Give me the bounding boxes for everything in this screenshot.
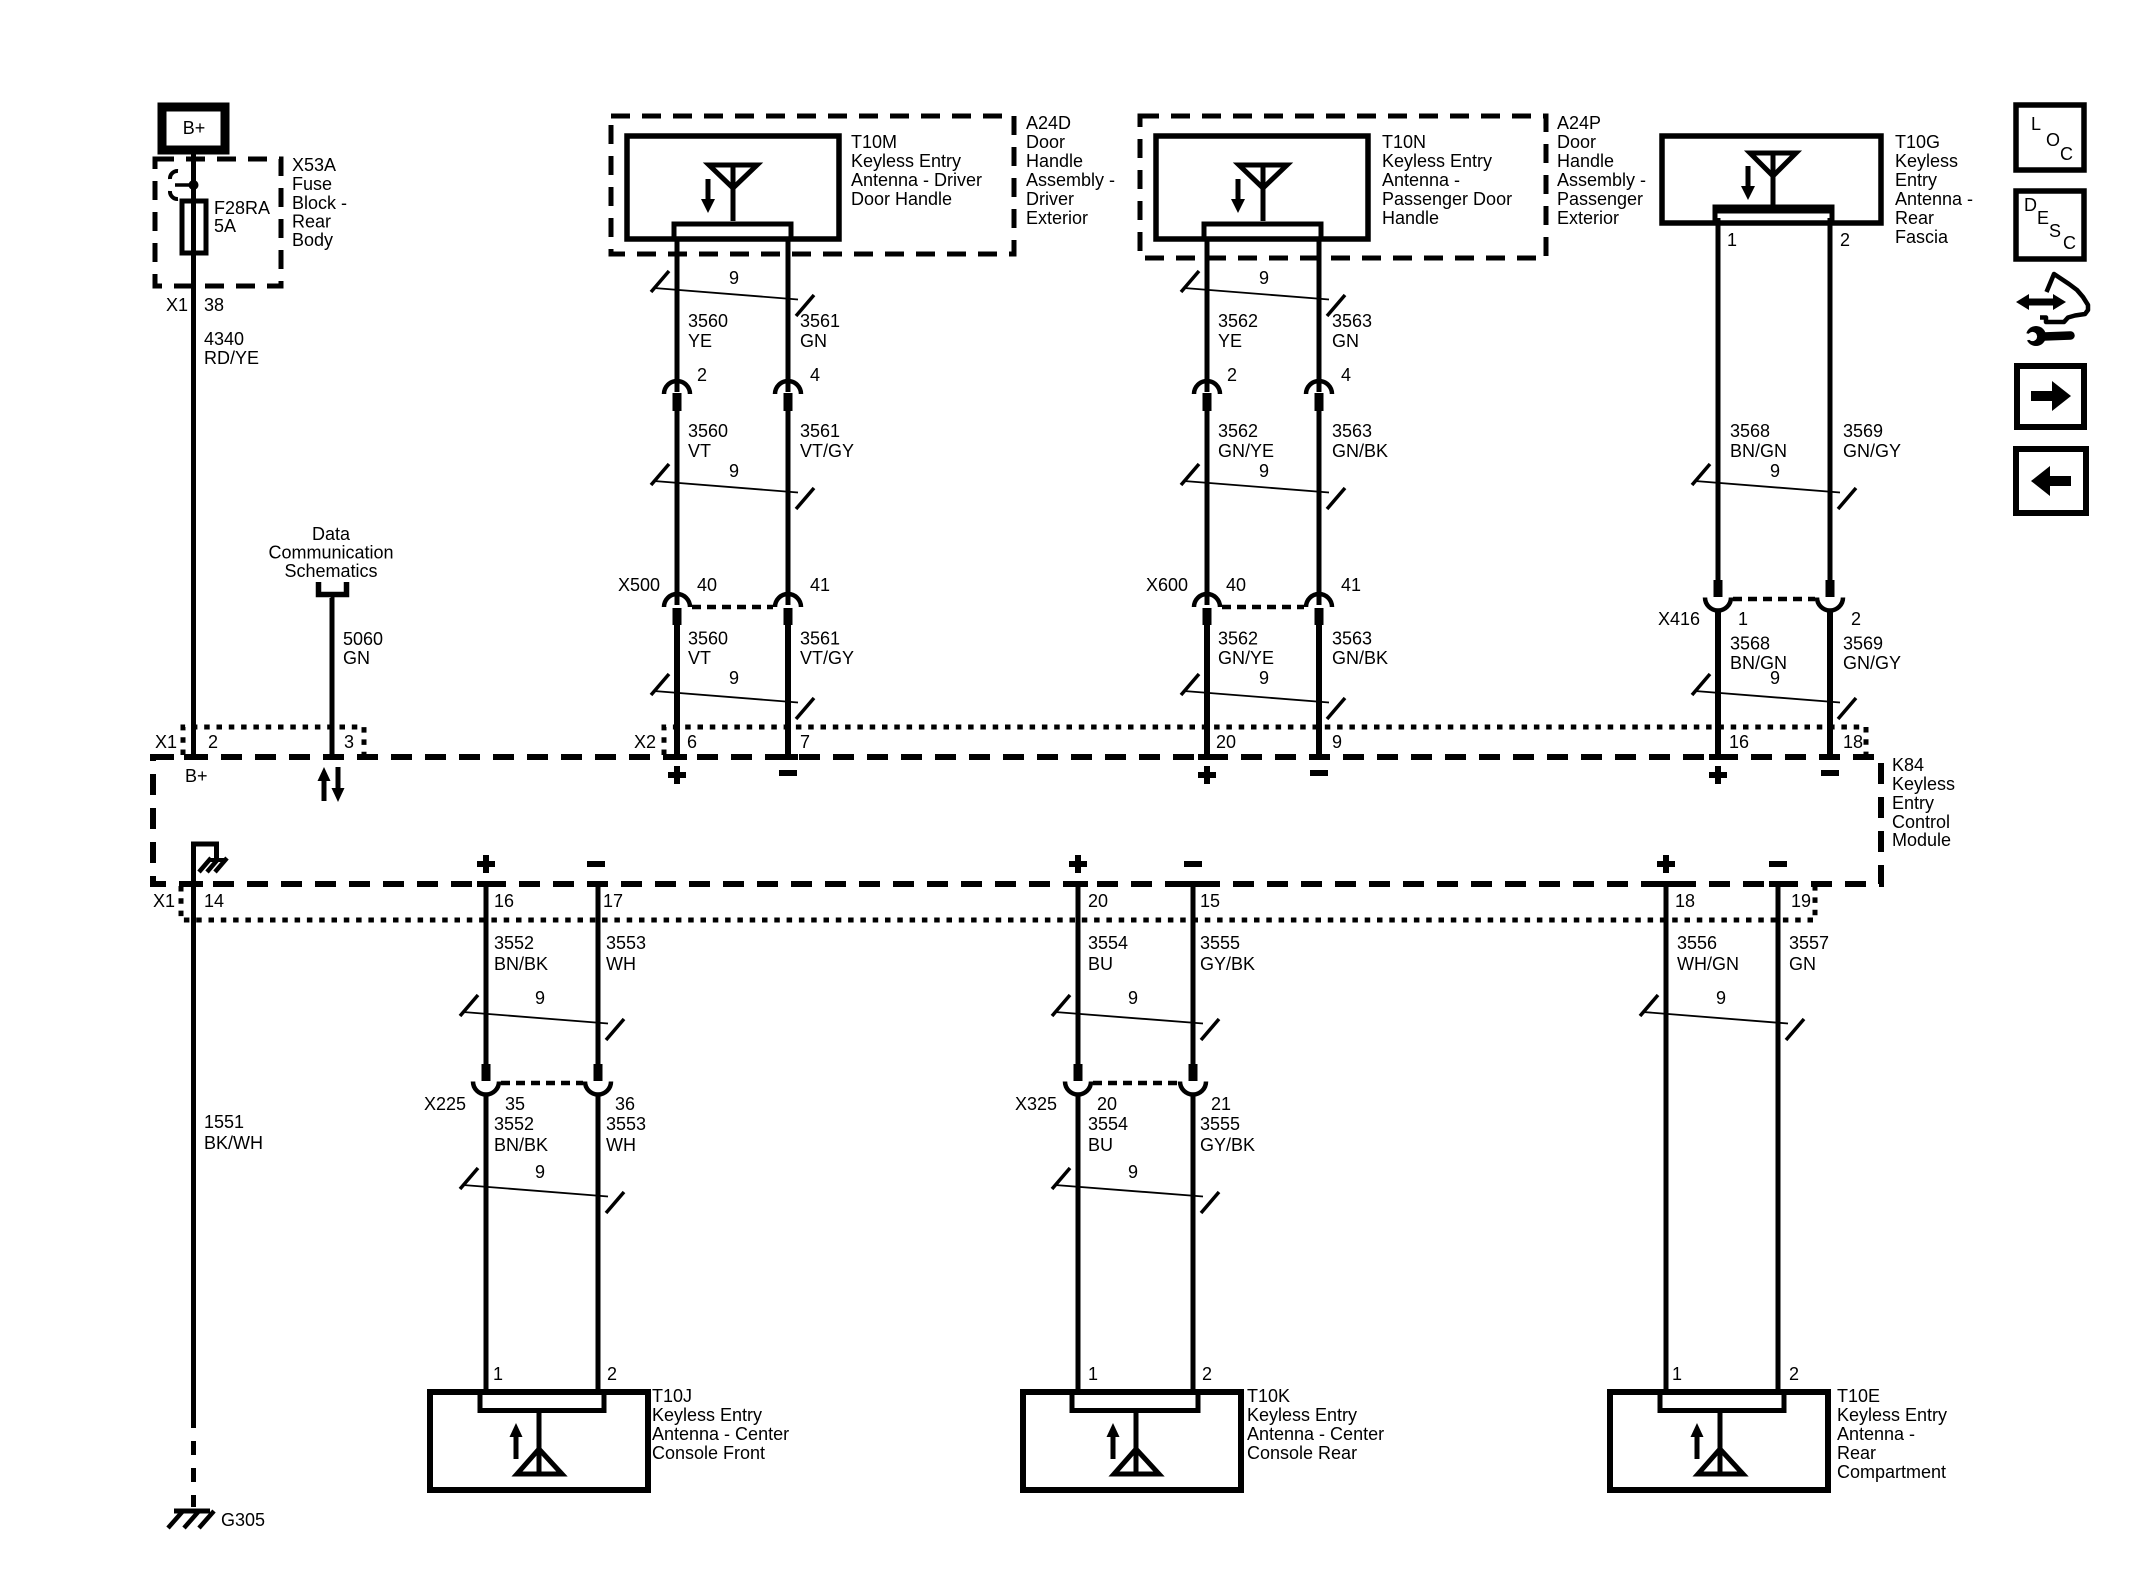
svg-text:9: 9 bbox=[1128, 988, 1138, 1008]
svg-text:X500: X500 bbox=[618, 575, 660, 595]
wire 1551 BK/WH from K84 pin 14 to ground bbox=[184, 884, 263, 1507]
svg-text:Body: Body bbox=[292, 230, 333, 250]
svg-text:3562: 3562 bbox=[1218, 421, 1258, 441]
svg-text:5A: 5A bbox=[214, 216, 236, 236]
svg-text:BU: BU bbox=[1088, 1135, 1113, 1155]
twisted pair row B (driver) bbox=[651, 461, 814, 509]
svg-text:VT/GY: VT/GY bbox=[800, 648, 854, 668]
wire 3552 BN/BK (left, console front) bbox=[477, 884, 548, 1392]
svg-text:1551: 1551 bbox=[204, 1112, 244, 1132]
svg-text:Block -: Block - bbox=[292, 193, 347, 213]
connector X1 pin 38 labels under fuse block bbox=[166, 295, 259, 368]
svg-text:38: 38 bbox=[204, 295, 224, 315]
wire 3563 GN/GN-BK (right, passenger) bbox=[1310, 239, 1388, 757]
wire 3554 BU (left, console rear) bbox=[1069, 884, 1128, 1392]
wire 3569 GN/GY (right, rear fascia) bbox=[1821, 218, 1901, 757]
svg-text:WH: WH bbox=[606, 1135, 636, 1155]
inline connector pin 2 (driver left) bbox=[664, 365, 707, 411]
svg-text:Antenna - Driver: Antenna - Driver bbox=[851, 170, 982, 190]
twisted pair row B (rear fascia) bbox=[1692, 461, 1856, 509]
svg-text:Keyless: Keyless bbox=[1892, 774, 1955, 794]
svg-text:9: 9 bbox=[729, 668, 739, 688]
svg-text:BK/WH: BK/WH bbox=[204, 1133, 263, 1153]
svg-text:3553: 3553 bbox=[606, 1114, 646, 1134]
svg-text:GN/GY: GN/GY bbox=[1843, 653, 1901, 673]
svg-text:2: 2 bbox=[697, 365, 707, 385]
svg-text:Exterior: Exterior bbox=[1026, 208, 1088, 228]
svg-text:3: 3 bbox=[344, 732, 354, 752]
svg-text:Schematics: Schematics bbox=[284, 561, 377, 581]
svg-text:Handle: Handle bbox=[1026, 151, 1083, 171]
antenna symbol inside T10M bbox=[701, 165, 757, 221]
svg-text:Passenger Door: Passenger Door bbox=[1382, 189, 1512, 209]
svg-text:Keyless: Keyless bbox=[1895, 151, 1958, 171]
svg-text:Antenna - Center: Antenna - Center bbox=[652, 1424, 789, 1444]
svg-text:Control: Control bbox=[1892, 812, 1950, 832]
connector X500 bbox=[618, 575, 830, 625]
icon previous-page left arrow box bbox=[2016, 449, 2086, 513]
svg-text:Keyless Entry: Keyless Entry bbox=[1382, 151, 1492, 171]
twisted pair row C (driver) bbox=[651, 668, 814, 719]
svg-text:GN: GN bbox=[800, 331, 827, 351]
svg-text:S: S bbox=[2049, 221, 2061, 241]
antenna T10K box bbox=[1023, 1364, 1384, 1490]
svg-text:1: 1 bbox=[1672, 1364, 1682, 1384]
svg-text:Antenna -: Antenna - bbox=[1837, 1424, 1915, 1444]
svg-text:WH/GN: WH/GN bbox=[1677, 954, 1739, 974]
door handle assembly A24P dashed box bbox=[1140, 113, 1646, 258]
svg-text:Assembly -: Assembly - bbox=[1026, 170, 1115, 190]
inline connector pin 4 (driver right) bbox=[775, 365, 820, 411]
connector X325 bbox=[1015, 1064, 1231, 1114]
svg-text:Door: Door bbox=[1026, 132, 1065, 152]
svg-text:4340: 4340 bbox=[204, 329, 244, 349]
svg-text:VT/GY: VT/GY bbox=[800, 441, 854, 461]
wire 3561 GN/VT-GY (right, driver) bbox=[779, 239, 854, 757]
svg-text:G305: G305 bbox=[221, 1510, 265, 1530]
internal chassis ground inside K84 (pin 14) bbox=[191, 844, 227, 884]
serial data bidirectional arrows inside K84 bbox=[318, 767, 345, 802]
svg-text:9: 9 bbox=[1716, 988, 1726, 1008]
svg-text:2: 2 bbox=[1789, 1364, 1799, 1384]
svg-text:41: 41 bbox=[810, 575, 830, 595]
svg-text:BN/BK: BN/BK bbox=[494, 954, 548, 974]
svg-text:3562: 3562 bbox=[1218, 311, 1258, 331]
svg-text:1: 1 bbox=[1727, 230, 1737, 250]
wire 3556 WH/GN (left, rear compartment) bbox=[1657, 884, 1739, 1392]
svg-text:Entry: Entry bbox=[1895, 170, 1937, 190]
svg-text:GN/YE: GN/YE bbox=[1218, 441, 1274, 461]
twisted pair row C (passenger) bbox=[1181, 668, 1345, 719]
svg-text:Rear: Rear bbox=[1895, 208, 1934, 228]
svg-text:9: 9 bbox=[1770, 461, 1780, 481]
svg-text:9: 9 bbox=[1259, 461, 1269, 481]
svg-text:Antenna - Center: Antenna - Center bbox=[1247, 1424, 1384, 1444]
svg-text:Keyless Entry: Keyless Entry bbox=[1247, 1405, 1357, 1425]
svg-text:B+: B+ bbox=[183, 118, 206, 138]
svg-text:BN/BK: BN/BK bbox=[494, 1135, 548, 1155]
svg-text:GN: GN bbox=[1332, 331, 1359, 351]
svg-text:Module: Module bbox=[1892, 830, 1951, 850]
svg-text:3555: 3555 bbox=[1200, 933, 1240, 953]
svg-text:15: 15 bbox=[1200, 891, 1220, 911]
antenna symbol inside T10E bbox=[1691, 1410, 1744, 1474]
svg-text:2: 2 bbox=[1202, 1364, 1212, 1384]
svg-text:Exterior: Exterior bbox=[1557, 208, 1619, 228]
twisted pair row A (passenger) bbox=[1181, 268, 1345, 316]
connector X1 (top) pin strip of K84 bbox=[155, 727, 364, 755]
svg-text:2: 2 bbox=[1227, 365, 1237, 385]
svg-text:35: 35 bbox=[505, 1094, 525, 1114]
svg-text:C: C bbox=[2063, 233, 2076, 253]
module K84 Keyless Entry Control Module dashed box bbox=[153, 755, 1955, 884]
svg-text:Door Handle: Door Handle bbox=[851, 189, 952, 209]
svg-text:K84: K84 bbox=[1892, 755, 1924, 775]
svg-text:3552: 3552 bbox=[494, 1114, 534, 1134]
wire 5060 GN bbox=[332, 598, 383, 757]
icon next-page right arrow box bbox=[2017, 366, 2084, 427]
node: Data Communication Schematics off-page connector bbox=[268, 524, 393, 603]
svg-text:18: 18 bbox=[1675, 891, 1695, 911]
svg-text:1: 1 bbox=[1088, 1364, 1098, 1384]
svg-text:16: 16 bbox=[1729, 732, 1749, 752]
twisted pair row D (rear compartment) bbox=[1640, 988, 1804, 1040]
svg-text:41: 41 bbox=[1341, 575, 1361, 595]
connector X2 pin strip of K84 bbox=[634, 727, 1866, 755]
svg-text:3568: 3568 bbox=[1730, 634, 1770, 654]
svg-text:21: 21 bbox=[1211, 1094, 1231, 1114]
svg-text:Handle: Handle bbox=[1557, 151, 1614, 171]
svg-text:Antenna -: Antenna - bbox=[1895, 189, 1973, 209]
svg-text:VT: VT bbox=[688, 648, 711, 668]
svg-text:X53A: X53A bbox=[292, 155, 336, 175]
svg-text:T10N: T10N bbox=[1382, 132, 1426, 152]
svg-text:T10G: T10G bbox=[1895, 132, 1940, 152]
svg-text:GN/YE: GN/YE bbox=[1218, 648, 1274, 668]
polarity marks + and - at X1 bottom row inside K84 bbox=[477, 855, 1787, 873]
svg-text:40: 40 bbox=[697, 575, 717, 595]
svg-text:18: 18 bbox=[1843, 732, 1863, 752]
svg-text:7: 7 bbox=[800, 732, 810, 752]
svg-text:9: 9 bbox=[1770, 668, 1780, 688]
svg-text:9: 9 bbox=[535, 1162, 545, 1182]
svg-text:3563: 3563 bbox=[1332, 629, 1372, 649]
svg-text:BN/GN: BN/GN bbox=[1730, 441, 1787, 461]
ground G305 bbox=[168, 1510, 265, 1530]
door handle assembly A24D dashed box bbox=[611, 113, 1115, 254]
svg-text:VT: VT bbox=[688, 441, 711, 461]
svg-text:3561: 3561 bbox=[800, 421, 840, 441]
svg-text:3552: 3552 bbox=[494, 933, 534, 953]
node B+ inside K84 bbox=[185, 766, 208, 786]
svg-text:Fascia: Fascia bbox=[1895, 227, 1949, 247]
svg-text:A24P: A24P bbox=[1557, 113, 1601, 133]
T10M terminal tab bbox=[674, 224, 791, 239]
svg-text:17: 17 bbox=[603, 891, 623, 911]
twisted pair row E (console rear) bbox=[1052, 1162, 1219, 1213]
svg-text:9: 9 bbox=[535, 988, 545, 1008]
svg-text:3563: 3563 bbox=[1332, 311, 1372, 331]
wire 4340 RD/YE from B+ through fuse block to K84 bbox=[184, 150, 343, 757]
fuse F28RA 5A bbox=[170, 171, 270, 253]
antenna symbol inside T10G bbox=[1741, 153, 1796, 207]
svg-text:X225: X225 bbox=[424, 1094, 466, 1114]
svg-text:Keyless Entry: Keyless Entry bbox=[652, 1405, 762, 1425]
svg-text:3568: 3568 bbox=[1730, 421, 1770, 441]
svg-text:YE: YE bbox=[688, 331, 712, 351]
svg-text:X1: X1 bbox=[153, 891, 175, 911]
polarity marks + and - at X2 row inside K84 bbox=[668, 766, 1839, 784]
svg-text:3554: 3554 bbox=[1088, 1114, 1128, 1134]
twisted pair row E (console front) bbox=[460, 1162, 624, 1213]
svg-text:3569: 3569 bbox=[1843, 634, 1883, 654]
svg-text:3561: 3561 bbox=[800, 311, 840, 331]
svg-text:9: 9 bbox=[1128, 1162, 1138, 1182]
svg-text:9: 9 bbox=[1259, 668, 1269, 688]
icon LOC box bbox=[2016, 105, 2084, 170]
svg-text:Passenger: Passenger bbox=[1557, 189, 1643, 209]
wire 3557 GN (right, rear compartment) bbox=[1769, 884, 1829, 1392]
antenna T10G box bbox=[1662, 132, 1973, 247]
inline connector pin 4 (passenger right) bbox=[1306, 365, 1351, 411]
twisted pair row D (console rear) bbox=[1052, 988, 1219, 1040]
svg-text:Antenna -: Antenna - bbox=[1382, 170, 1460, 190]
svg-text:20: 20 bbox=[1088, 891, 1108, 911]
twisted pair row A (driver) bbox=[651, 268, 814, 316]
svg-text:6: 6 bbox=[687, 732, 697, 752]
svg-text:O: O bbox=[2046, 130, 2060, 150]
twisted pair row D (console front) bbox=[460, 988, 624, 1040]
icon vehicle with double arrow and wrench bbox=[2016, 274, 2088, 346]
svg-text:T10E: T10E bbox=[1837, 1386, 1880, 1406]
svg-text:Assembly -: Assembly - bbox=[1557, 170, 1646, 190]
svg-text:1: 1 bbox=[493, 1364, 503, 1384]
svg-text:X325: X325 bbox=[1015, 1094, 1057, 1114]
antenna symbol inside T10J bbox=[510, 1410, 563, 1474]
inline connector pin 2 (passenger left) bbox=[1194, 365, 1237, 411]
svg-text:4: 4 bbox=[1341, 365, 1351, 385]
svg-text:Driver: Driver bbox=[1026, 189, 1074, 209]
svg-text:14: 14 bbox=[204, 891, 224, 911]
svg-text:9: 9 bbox=[1259, 268, 1269, 288]
svg-text:GN: GN bbox=[343, 648, 370, 668]
svg-text:40: 40 bbox=[1226, 575, 1246, 595]
svg-text:36: 36 bbox=[615, 1094, 635, 1114]
svg-text:3562: 3562 bbox=[1218, 629, 1258, 649]
svg-text:A24D: A24D bbox=[1026, 113, 1071, 133]
twisted pair row B (passenger) bbox=[1181, 461, 1345, 509]
antenna T10M box bbox=[627, 132, 982, 239]
svg-text:WH: WH bbox=[606, 954, 636, 974]
svg-text:YE: YE bbox=[1218, 331, 1242, 351]
svg-text:2: 2 bbox=[607, 1364, 617, 1384]
connector X1 (bottom) pin strip of K84 bbox=[153, 886, 1815, 920]
svg-text:T10J: T10J bbox=[652, 1386, 692, 1406]
svg-text:3569: 3569 bbox=[1843, 421, 1883, 441]
svg-text:L: L bbox=[2031, 114, 2041, 134]
svg-text:4: 4 bbox=[810, 365, 820, 385]
svg-text:F28RA: F28RA bbox=[214, 198, 270, 218]
wire 3568 BN/GN (left, rear fascia) bbox=[1709, 218, 1787, 757]
power symbol B+ bbox=[162, 107, 225, 150]
svg-text:GY/BK: GY/BK bbox=[1200, 954, 1255, 974]
antenna T10J box bbox=[430, 1364, 789, 1490]
twisted pair row C (rear fascia) bbox=[1692, 668, 1856, 719]
svg-text:3555: 3555 bbox=[1200, 1114, 1240, 1134]
T10N terminal tab bbox=[1204, 224, 1321, 239]
svg-text:Rear: Rear bbox=[1837, 1443, 1876, 1463]
svg-text:Keyless Entry: Keyless Entry bbox=[851, 151, 961, 171]
connector X225 bbox=[424, 1064, 635, 1114]
svg-text:2: 2 bbox=[1840, 230, 1850, 250]
svg-text:19: 19 bbox=[1791, 891, 1811, 911]
svg-text:3557: 3557 bbox=[1789, 933, 1829, 953]
svg-text:20: 20 bbox=[1216, 732, 1236, 752]
connector X600 bbox=[1146, 575, 1361, 625]
svg-text:X1: X1 bbox=[155, 732, 177, 752]
svg-text:GN: GN bbox=[1789, 954, 1816, 974]
wire 3560 YE/VT (left, driver) bbox=[668, 239, 728, 757]
svg-text:D: D bbox=[2024, 195, 2037, 215]
svg-text:Compartment: Compartment bbox=[1837, 1462, 1946, 1482]
svg-text:Rear: Rear bbox=[292, 212, 331, 232]
svg-text:Communication: Communication bbox=[268, 543, 393, 563]
svg-text:T10K: T10K bbox=[1247, 1386, 1290, 1406]
antenna symbol inside T10K bbox=[1107, 1410, 1160, 1474]
svg-text:X2: X2 bbox=[634, 732, 656, 752]
svg-text:16: 16 bbox=[494, 891, 514, 911]
svg-text:9: 9 bbox=[729, 461, 739, 481]
svg-text:Handle: Handle bbox=[1382, 208, 1439, 228]
svg-text:20: 20 bbox=[1097, 1094, 1117, 1114]
svg-text:GY/BK: GY/BK bbox=[1200, 1135, 1255, 1155]
wire 3553 WH (right, console front) bbox=[589, 884, 646, 1392]
svg-text:Fuse: Fuse bbox=[292, 174, 332, 194]
svg-text:3560: 3560 bbox=[688, 421, 728, 441]
svg-text:X416: X416 bbox=[1658, 609, 1700, 629]
wire 3555 GY/BK (right, console rear) bbox=[1184, 884, 1255, 1392]
svg-text:BU: BU bbox=[1088, 954, 1113, 974]
svg-text:GN/BK: GN/BK bbox=[1332, 648, 1388, 668]
svg-text:2: 2 bbox=[208, 732, 218, 752]
antenna symbol inside T10N bbox=[1231, 165, 1287, 221]
svg-text:9: 9 bbox=[1332, 732, 1342, 752]
svg-text:9: 9 bbox=[729, 268, 739, 288]
svg-text:3561: 3561 bbox=[800, 629, 840, 649]
antenna T10N box bbox=[1156, 132, 1512, 239]
svg-text:1: 1 bbox=[1738, 609, 1748, 629]
svg-text:3563: 3563 bbox=[1332, 421, 1372, 441]
svg-text:Door: Door bbox=[1557, 132, 1596, 152]
T10G terminal tab and pins 1/2 bbox=[1713, 209, 1851, 250]
icon DESC box bbox=[2016, 191, 2084, 259]
svg-text:GN/GY: GN/GY bbox=[1843, 441, 1901, 461]
svg-text:X1: X1 bbox=[166, 295, 188, 315]
svg-text:3556: 3556 bbox=[1677, 933, 1717, 953]
svg-text:X600: X600 bbox=[1146, 575, 1188, 595]
svg-text:2: 2 bbox=[1851, 609, 1861, 629]
svg-text:5060: 5060 bbox=[343, 629, 383, 649]
svg-text:C: C bbox=[2060, 144, 2073, 164]
svg-text:E: E bbox=[2037, 208, 2049, 228]
svg-text:T10M: T10M bbox=[851, 132, 897, 152]
svg-text:B+: B+ bbox=[185, 766, 208, 786]
svg-text:Console Front: Console Front bbox=[652, 1443, 765, 1463]
fuse block X53A dashed box bbox=[155, 155, 347, 286]
svg-text:3560: 3560 bbox=[688, 311, 728, 331]
svg-text:Entry: Entry bbox=[1892, 793, 1934, 813]
svg-text:3554: 3554 bbox=[1088, 933, 1128, 953]
svg-text:Data: Data bbox=[312, 524, 351, 544]
svg-text:GN/BK: GN/BK bbox=[1332, 441, 1388, 461]
svg-text:3560: 3560 bbox=[688, 629, 728, 649]
svg-text:3553: 3553 bbox=[606, 933, 646, 953]
svg-text:Console Rear: Console Rear bbox=[1247, 1443, 1357, 1463]
antenna T10E box bbox=[1610, 1364, 1947, 1490]
connector X416 bbox=[1658, 580, 1861, 629]
svg-text:RD/YE: RD/YE bbox=[204, 348, 259, 368]
svg-text:Keyless Entry: Keyless Entry bbox=[1837, 1405, 1947, 1425]
wire 3562 YE/GN-YE (left, passenger) bbox=[1198, 239, 1274, 757]
